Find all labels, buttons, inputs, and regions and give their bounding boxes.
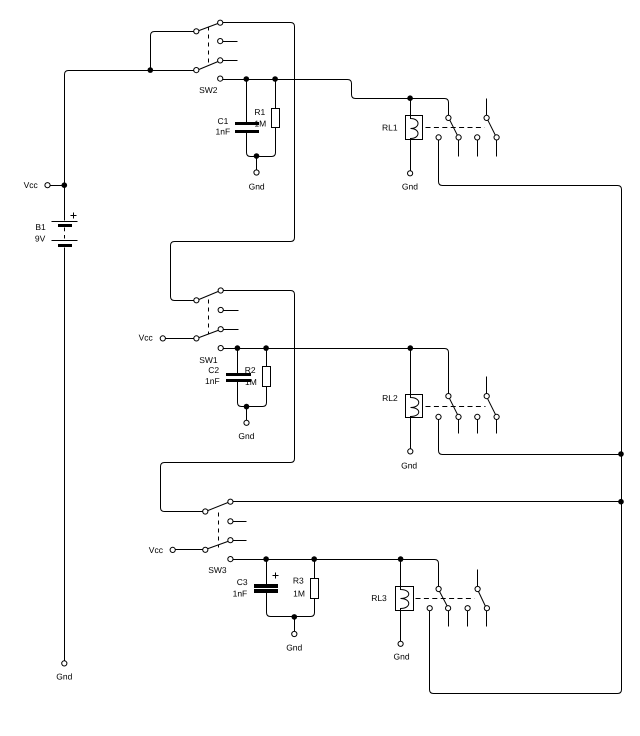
svg-text:Gnd: Gnd: [56, 672, 72, 682]
svg-text:B1: B1: [35, 222, 46, 232]
svg-text:Gnd: Gnd: [249, 181, 265, 191]
svg-text:9V: 9V: [35, 234, 46, 244]
svg-text:RL3: RL3: [371, 593, 387, 603]
svg-text:Gnd: Gnd: [402, 182, 418, 192]
svg-text:Gnd: Gnd: [286, 642, 302, 652]
svg-text:1nF: 1nF: [233, 589, 248, 599]
svg-text:C2: C2: [208, 365, 219, 375]
svg-text:1nF: 1nF: [216, 127, 231, 137]
svg-text:Gnd: Gnd: [238, 431, 254, 441]
svg-text:SW1: SW1: [199, 355, 218, 365]
svg-text:Gnd: Gnd: [394, 652, 410, 662]
svg-text:Vcc: Vcc: [139, 333, 154, 343]
svg-text:R1: R1: [254, 107, 265, 117]
svg-text:RL1: RL1: [382, 123, 398, 133]
svg-text:R3: R3: [293, 576, 304, 586]
svg-text:C1: C1: [218, 116, 229, 126]
svg-text:1nF: 1nF: [205, 376, 220, 386]
svg-text:Vcc: Vcc: [149, 545, 164, 555]
svg-text:1M: 1M: [293, 588, 305, 598]
svg-text:RL2: RL2: [382, 393, 398, 403]
svg-text:SW3: SW3: [208, 565, 227, 575]
svg-text:Vcc: Vcc: [24, 180, 39, 190]
svg-text:SW2: SW2: [199, 85, 218, 95]
svg-text:C3: C3: [237, 577, 248, 587]
svg-text:Gnd: Gnd: [401, 460, 417, 470]
